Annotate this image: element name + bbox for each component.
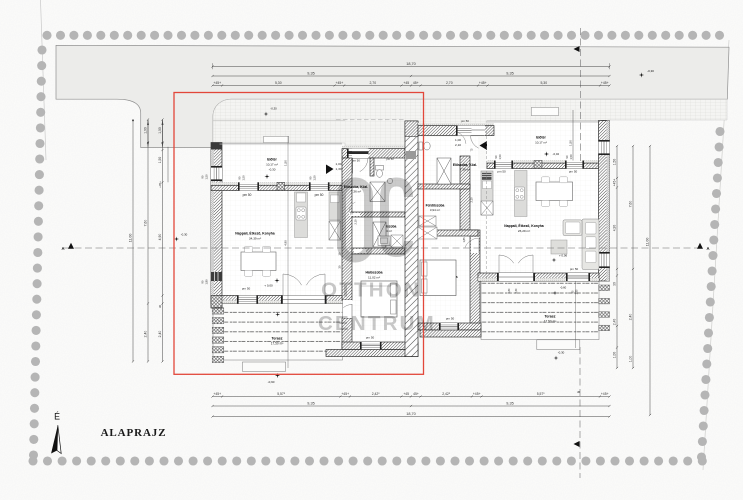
svg-text:2,40: 2,40: [158, 331, 162, 338]
svg-text:+ 0,00: + 0,00: [264, 284, 273, 288]
level star terrace right upper: [553, 291, 558, 296]
svg-text:11,00: 11,00: [128, 234, 132, 243]
svg-text:4,90: 4,90: [158, 234, 162, 241]
svg-text:1,50: 1,50: [612, 159, 616, 166]
living south wall right unit: [478, 273, 599, 281]
road and driveway area: [56, 45, 729, 147]
dimension column right outer 11,00: [645, 145, 651, 416]
svg-text:É: É: [54, 412, 60, 422]
svg-text:+45+: +45+: [213, 81, 221, 85]
sink left unit: [297, 193, 306, 202]
section marker A left: [68, 243, 74, 249]
floor left unit rooms east: [352, 158, 405, 342]
doormat right unit: [531, 107, 558, 115]
svg-text:1,00: 1,00: [158, 127, 162, 134]
section marker B top: [574, 46, 580, 52]
pavement divider line: [213, 119, 345, 121]
floor right unit porch: [487, 123, 603, 161]
svg-text:7,60: 7,60: [143, 220, 147, 227]
window top right unit: [456, 126, 474, 136]
svg-text:+45: +45: [403, 81, 409, 85]
svg-text:+45+: +45+: [612, 179, 616, 187]
svg-text:pm 50: pm 50: [352, 159, 360, 163]
dimension row bottom 18,70: [211, 412, 610, 418]
floor right unit living room: [478, 169, 598, 274]
svg-text:pm 50: pm 50: [497, 170, 506, 174]
svg-text:ALAPRAJZ: ALAPRAJZ: [101, 427, 167, 439]
south footing strip left: [326, 350, 418, 357]
svg-text:1,00: 1,00: [335, 162, 341, 166]
window west wall upper: [211, 166, 222, 181]
dimension row bottom segments: [211, 392, 610, 398]
svg-text:1,50: 1,50: [313, 175, 317, 181]
level star living right: [552, 258, 557, 263]
svg-text:45+: 45+: [413, 392, 419, 396]
boundary dot markers bottom row: [28, 456, 706, 465]
level star terrace left: [275, 312, 280, 317]
porch south wall right unit: [487, 161, 602, 164]
coffee table right unit: [551, 240, 567, 254]
svg-text:1,80: 1,80: [576, 289, 579, 294]
svg-text:Előtér: Előtér: [536, 136, 546, 140]
svg-text:1,00: 1,00: [628, 356, 632, 363]
boundary dot markers left column: [29, 45, 47, 459]
svg-text:pm 50: pm 50: [242, 287, 251, 291]
svg-text:2,10: 2,10: [455, 143, 461, 147]
dimension row bottom 9,35: [211, 401, 610, 407]
dimension row top segments: [211, 81, 610, 87]
wall bath/bedroom partition: [352, 248, 405, 254]
svg-text:+45+: +45+: [601, 392, 609, 396]
window east wall 1: [599, 140, 610, 155]
kitchen wall counter left unit: [329, 192, 341, 220]
svg-text:A: A: [706, 246, 709, 251]
window west wall lower: [211, 272, 222, 281]
stove right unit: [515, 187, 525, 200]
wc toilet right unit: [419, 142, 423, 150]
axis line right unit: [486, 126, 488, 282]
level star driveway: [264, 112, 269, 117]
boundary dot markers top row: [42, 31, 724, 40]
svg-text:+ 0,06: + 0,06: [559, 254, 568, 258]
svg-text:-0,30: -0,30: [270, 107, 277, 111]
level star living left: [274, 278, 279, 283]
washer bathroom left: [378, 236, 390, 246]
svg-text:30: 30: [158, 305, 162, 309]
svg-text:17,50 m²: 17,50 m²: [271, 342, 284, 346]
wall vestibule/bath partition right: [418, 184, 470, 189]
svg-text:2,40: 2,40: [143, 331, 147, 338]
svg-text:18,70: 18,70: [406, 412, 416, 416]
entry door right unit: [472, 126, 486, 136]
svg-text:-0,30: -0,30: [647, 69, 654, 73]
svg-text:1,30: 1,30: [335, 167, 341, 171]
window living front 2: [309, 182, 330, 190]
dimension column left 11,00: [128, 119, 134, 362]
svg-text:pm 50: pm 50: [461, 119, 469, 123]
svg-text:1,00: 1,00: [455, 138, 461, 142]
svg-text:pm 50: pm 50: [570, 267, 579, 271]
level star garden left: [174, 237, 179, 242]
svg-text:1,50: 1,50: [205, 174, 209, 180]
kitchen counter left unit: [295, 192, 308, 238]
svg-text:Előszoba, Közl.: Előszoba, Közl.: [453, 163, 477, 167]
terrace door swing arcs right: [499, 255, 514, 263]
section marker B bottom: [574, 441, 580, 447]
sofa right unit: [582, 219, 599, 270]
svg-text:9,35: 9,35: [307, 401, 314, 405]
svg-text:+45+: +45+: [473, 392, 481, 396]
svg-text:+45+: +45+: [479, 81, 487, 85]
driveway dimension marks: [147, 120, 164, 147]
wall living south left unit: [211, 296, 342, 304]
floor left unit porch: [220, 143, 343, 182]
window living south right: [566, 273, 590, 281]
wall vestibule/bath partition: [352, 212, 405, 217]
svg-text:-0,90: -0,90: [268, 380, 275, 384]
section line B top: [580, 28, 582, 161]
wall vestibule top left unit: [342, 146, 408, 149]
svg-text:+45+: +45+: [341, 392, 349, 396]
svg-text:10,17 m²: 10,17 m²: [535, 141, 547, 145]
svg-text:Nappali, Étkező, Konyha: Nappali, Étkező, Konyha: [504, 223, 543, 228]
svg-text:17,50 m²: 17,50 m²: [544, 320, 557, 324]
window living south left: [237, 296, 258, 304]
pier living front: [277, 182, 285, 190]
svg-text:2,10: 2,10: [470, 197, 474, 203]
svg-text:2,70: 2,70: [369, 81, 376, 85]
red highlight rectangle: [174, 93, 424, 375]
svg-text:1,50: 1,50: [242, 175, 246, 181]
svg-text:Nappali, Étkező, Konyha: Nappali, Étkező, Konyha: [235, 231, 274, 236]
stove left unit: [296, 207, 306, 220]
wall living front (porch/living separator) left unit: [211, 182, 342, 185]
wc basin left unit: [387, 178, 392, 183]
window bedroom bottom right: [439, 323, 459, 330]
terrace right landing step: [537, 340, 580, 350]
south footing strip right: [420, 330, 481, 337]
level star porch right: [544, 151, 549, 156]
svg-text:1,50: 1,50: [568, 140, 572, 146]
dimension column left middle: [143, 118, 149, 362]
svg-text:9,35: 9,35: [506, 401, 513, 405]
corner pier west bottom: [211, 296, 222, 308]
paved front yard: [213, 99, 727, 147]
svg-text:Fürdőszoba: Fürdőszoba: [426, 204, 445, 208]
svg-text:Hálószoba: Hálószoba: [366, 271, 383, 275]
svg-text:7,36 m²: 7,36 m²: [460, 168, 470, 172]
svg-text:45+: 45+: [413, 81, 419, 85]
dimension column right middle: [628, 145, 634, 369]
porch dim right 1,50: [572, 110, 574, 161]
terrace right unit deck: [481, 281, 599, 340]
svg-text:pm 50: pm 50: [386, 157, 394, 161]
svg-text:4,90: 4,90: [612, 225, 616, 232]
wall interior vertical left unit: [342, 158, 352, 300]
wall bedroom east right unit: [470, 230, 480, 330]
svg-text:18,70: 18,70: [406, 62, 416, 66]
dimension column left inner: [158, 118, 164, 362]
washer bathroom right: [419, 216, 436, 226]
shaft xbox bath right: [418, 227, 437, 239]
shaft xbox bath left: [373, 222, 386, 247]
plot boundary line right: [703, 40, 729, 470]
svg-text:26,29 m²: 26,29 m²: [518, 229, 530, 233]
floor right unit rooms west: [418, 137, 478, 330]
wall left outer (west): [211, 143, 222, 309]
svg-text:1,00: 1,00: [612, 352, 616, 359]
svg-text:+45+: +45+: [336, 81, 344, 85]
svg-text:1,50: 1,50: [158, 157, 162, 164]
door bedroom left unit: [343, 300, 352, 318]
svg-text:Terasz: Terasz: [271, 337, 282, 341]
corner pier right: [601, 120, 608, 128]
north arrow needle: [51, 425, 58, 453]
section marker A right: [697, 243, 703, 249]
entry arrow marker left unit: [326, 165, 334, 175]
svg-text:2,40: 2,40: [612, 319, 616, 326]
dimension row top 9,35: [211, 71, 610, 77]
section line B bottom: [579, 347, 581, 478]
svg-text:A: A: [61, 246, 64, 251]
wall top right unit: [418, 123, 494, 126]
svg-text:pm 50: pm 50: [446, 317, 455, 321]
terrace left unit deck: [213, 304, 343, 361]
svg-text:2,42⁵: 2,42⁵: [372, 392, 381, 396]
svg-text:-0,60: -0,60: [560, 286, 567, 290]
svg-text:2,10: 2,10: [354, 219, 358, 225]
wall bath/bedroom partition right: [418, 230, 478, 236]
svg-text:-0,30: -0,30: [558, 351, 565, 355]
sofa chaise right unit: [563, 220, 582, 236]
window east wall 2: [599, 252, 610, 268]
svg-text:11,00: 11,00: [645, 238, 649, 247]
svg-text:1,80: 1,80: [205, 279, 209, 285]
entry door swing left unit: [360, 158, 368, 172]
wall interior vertical right unit: [460, 156, 470, 230]
svg-text:+45: +45: [403, 392, 409, 396]
porch dim left 1,50: [287, 136, 289, 368]
boundary dot markers right column: [697, 127, 725, 462]
svg-text:OTTHON: OTTHON: [321, 279, 421, 302]
svg-text:5,57⁵: 5,57⁵: [277, 392, 286, 396]
svg-text:4,90: 4,90: [284, 240, 288, 246]
svg-text:pm 50: pm 50: [315, 193, 324, 197]
kitchen counter right unit: [515, 171, 528, 217]
svg-text:+45+: +45+: [601, 81, 609, 85]
svg-text:1,85: 1,85: [462, 237, 466, 243]
svg-text:30: 30: [612, 282, 616, 286]
concrete pier gray: [406, 151, 416, 159]
svg-text:2,70: 2,70: [446, 81, 453, 85]
svg-text:7,60: 7,60: [628, 201, 632, 208]
shaft xbox vestibule right: [437, 158, 451, 184]
bedroom bottom wall left unit: [342, 342, 418, 350]
porch pier right unit: [534, 161, 542, 169]
svg-text:5,30: 5,30: [275, 81, 282, 85]
shaft xbox vestibule left: [370, 182, 385, 202]
corner pier west top: [211, 143, 222, 150]
level star street: [639, 72, 644, 77]
terrace door right unit: [497, 273, 535, 281]
terrace door swing arcs left: [283, 274, 302, 285]
svg-text:B: B: [577, 391, 581, 393]
svg-text:10,17 m²: 10,17 m²: [266, 163, 278, 167]
svg-text:pm 50: pm 50: [569, 170, 578, 174]
wall wc partition: [370, 158, 374, 176]
wc toilet left unit: [376, 166, 384, 171]
svg-text:Előtér: Előtér: [267, 158, 277, 162]
svg-text:+45+: +45+: [158, 181, 162, 188]
svg-text:CENTRUM: CENTRUM: [318, 312, 436, 335]
svg-text:5,57⁵: 5,57⁵: [537, 392, 546, 396]
watermark OC monogram: [318, 182, 436, 335]
porch edge line left unit: [220, 142, 343, 144]
svg-text:-0,30: -0,30: [181, 233, 188, 237]
svg-text:9,35: 9,35: [506, 71, 513, 75]
bed left unit: [361, 281, 397, 317]
party wall center: [405, 121, 418, 357]
svg-text:2,40: 2,40: [628, 314, 632, 321]
svg-text:1,50: 1,50: [283, 160, 287, 166]
svg-text:1,00: 1,00: [143, 127, 147, 134]
counter sink right unit: [481, 171, 493, 215]
svg-text:2,42⁵: 2,42⁵: [442, 392, 451, 396]
shower bathroom left: [391, 235, 403, 247]
bed right unit: [420, 260, 456, 296]
entry arrow marker right unit: [480, 141, 488, 150]
terrace right steps: [599, 285, 610, 291]
kitchen tall cabinet xbox left unit: [329, 221, 341, 240]
doormat left unit: [264, 136, 289, 142]
svg-text:3,94 m²: 3,94 m²: [430, 208, 440, 212]
svg-text:pm 50: pm 50: [243, 193, 252, 197]
level star terrace right: [554, 356, 559, 361]
porch north edge right unit: [487, 120, 603, 122]
svg-text:pm 50: pm 50: [366, 336, 375, 340]
svg-text:-0,02: -0,02: [553, 152, 560, 156]
roof overhang dashed left: [336, 119, 406, 121]
terrace dim line right: [574, 281, 576, 348]
svg-text:+45+: +45+: [213, 392, 221, 396]
party wall north pier: [405, 121, 418, 137]
entry door opening left unit: [352, 149, 369, 158]
bedroom bottom wall right unit: [418, 323, 481, 330]
dimension row top 18,70: [211, 62, 610, 69]
svg-text:34,39 m²: 34,39 m²: [249, 237, 261, 241]
svg-text:1,50: 1,50: [569, 154, 573, 160]
svg-text:2,30: 2,30: [515, 288, 518, 293]
section line A-A: [64, 247, 704, 249]
terrace door left unit: [281, 296, 327, 304]
dining table right unit: [536, 182, 573, 201]
svg-text:1,50: 1,50: [498, 154, 502, 160]
windows porch south right: [494, 161, 513, 169]
svg-text:Terasz: Terasz: [544, 315, 555, 319]
terrace left landing step: [242, 362, 285, 371]
plot boundary line left: [41, 0, 47, 160]
window living front 1: [238, 182, 259, 190]
svg-text:9,35: 9,35: [307, 71, 314, 75]
floor left unit living room: [220, 190, 343, 296]
svg-text:1,80: 1,80: [508, 288, 511, 293]
dimension column right inner: [612, 145, 618, 369]
wall right outer (east): [599, 121, 610, 282]
svg-text:-0,30: -0,30: [269, 168, 276, 172]
window vestibule top: [347, 149, 368, 158]
window bedroom bottom left: [360, 342, 382, 350]
level star porch left: [264, 174, 269, 179]
svg-text:5,30: 5,30: [540, 81, 547, 85]
terrace left steps: [212, 308, 224, 314]
dining table left unit: [241, 252, 276, 271]
svg-text:7,36 m²: 7,36 m²: [351, 190, 361, 194]
